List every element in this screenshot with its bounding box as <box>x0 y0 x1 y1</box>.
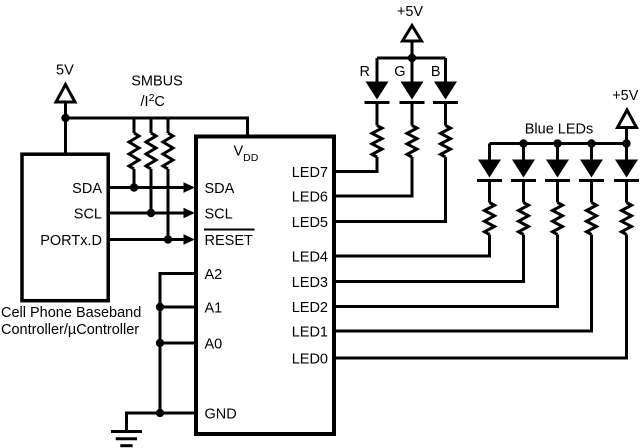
arrow SDA into U1 <box>184 182 196 192</box>
wire blue LED 2 resistor to LED3 pin <box>332 235 524 282</box>
resistor R series <box>372 126 382 158</box>
svg-text:G: G <box>394 64 405 80</box>
svg-text:A2: A2 <box>205 267 223 283</box>
junction bus A1 <box>156 303 164 311</box>
resistor B series <box>441 126 451 158</box>
wire blue LED 3 cathode to resistor <box>556 181 559 203</box>
svg-text:A0: A0 <box>205 337 223 353</box>
svg-text:/I2C: /I2C <box>141 92 165 110</box>
wire LED B resistor to LED5 pin <box>332 157 446 222</box>
LED blue D7 <box>579 160 604 181</box>
svg-text:LED0: LED0 <box>292 352 328 368</box>
resistor G series <box>407 126 417 158</box>
resistor blue LED 5 series <box>622 203 632 235</box>
svg-text:+5V: +5V <box>397 4 424 20</box>
wire LED B cathode to resistor <box>444 103 447 126</box>
svg-text:LED3: LED3 <box>292 275 328 291</box>
overline RESET <box>204 229 255 231</box>
svg-text:LED2: LED2 <box>292 300 328 316</box>
LED blue D6 <box>545 160 570 181</box>
wire LED G resistor to LED6 pin <box>332 157 412 196</box>
LED red D1 <box>365 82 390 103</box>
power symbol +5V RGB <box>403 26 422 42</box>
wire RESET net <box>108 238 186 241</box>
wire blue LED 5 resistor to LED0 pin <box>332 235 627 359</box>
svg-text:LED5: LED5 <box>292 215 328 231</box>
junction blue rail col 3 <box>553 139 561 147</box>
op IC U1 LED driver box <box>196 137 334 435</box>
svg-text:+5V: +5V <box>612 88 639 104</box>
wire pull-up R SCL bottom stub <box>150 169 153 213</box>
wire pull-up R SDA bottom stub <box>133 169 136 188</box>
wire pull-up R SDA top stub <box>133 118 136 133</box>
wire A0 <box>160 342 198 345</box>
resistor blue LED 2 series <box>519 203 529 235</box>
svg-text:Blue LEDs: Blue LEDs <box>525 122 594 138</box>
LED green D2 <box>400 82 425 103</box>
svg-text:SCL: SCL <box>74 206 102 222</box>
resistor blue LED 3 series <box>553 203 563 235</box>
junction bus A0 <box>156 339 164 347</box>
svg-text:RESET: RESET <box>205 233 253 249</box>
junction pull-up on RESET <box>164 235 172 243</box>
wire blue LED 4 cathode to resistor <box>590 181 593 203</box>
svg-text:SMBUS: SMBUS <box>131 74 183 90</box>
wire LED G cathode to resistor <box>411 103 414 126</box>
wire blue LED 4 resistor to LED1 pin <box>332 235 592 332</box>
wire 5V stem to controller box <box>64 102 67 156</box>
wire +5V blue stem <box>625 128 628 144</box>
wire blue LED 3 resistor to LED2 pin <box>332 235 558 307</box>
junction 5V stem / VDD rail <box>61 114 69 122</box>
wire rail drop to blue LED 5 <box>625 144 628 160</box>
wire rail drop to blue LED 4 <box>590 144 593 160</box>
junction pull-up on SCL <box>147 209 155 217</box>
svg-text:SDA: SDA <box>72 181 102 197</box>
junction RGB rail <box>408 54 416 62</box>
wire LED R resistor to LED7 pin <box>332 157 377 172</box>
wire A1 <box>160 306 198 309</box>
svg-text:PORTx.D: PORTx.D <box>40 233 102 249</box>
wire pull-up R RESET top stub <box>167 118 170 133</box>
wire GND net <box>127 413 199 431</box>
junction blue rail col 2 <box>519 139 527 147</box>
svg-text:LED7: LED7 <box>292 165 328 181</box>
wire A2 and address bus <box>160 274 198 414</box>
svg-text:SDA: SDA <box>205 181 235 197</box>
wire blue LED 2 cathode to resistor <box>522 181 525 203</box>
resistor pull-up SDA <box>129 133 139 169</box>
resistor pull-up SCL <box>146 133 156 169</box>
svg-text:B: B <box>431 64 441 80</box>
svg-text:A1: A1 <box>205 301 223 317</box>
LED blue D3 <box>433 82 458 103</box>
wire rail drop to blue LED 1 <box>488 144 491 160</box>
wire LED R cathode to resistor <box>376 103 379 126</box>
junction blue rail col 4 <box>587 139 595 147</box>
resistor pull-up RESET <box>163 133 173 169</box>
wire pull-up R RESET bottom stub <box>167 169 170 240</box>
resistor blue LED 1 series <box>485 203 495 235</box>
svg-text:SCL: SCL <box>205 207 233 223</box>
svg-text:LED4: LED4 <box>292 250 328 266</box>
svg-text:LED6: LED6 <box>292 190 328 206</box>
power symbol +5V blue LEDs <box>618 110 637 128</box>
wire blue LED 5 cathode to resistor <box>625 181 628 203</box>
arrow SCL into U1 <box>184 208 196 218</box>
LED blue D5 <box>511 160 536 181</box>
wire drop to LED B <box>444 58 447 82</box>
svg-text:LED1: LED1 <box>292 325 328 341</box>
power symbol 5V <box>56 85 75 103</box>
wire RGB rail <box>377 57 446 60</box>
arrow RESET into U1 <box>184 234 196 244</box>
wire blue rail <box>490 142 627 145</box>
wire SCL net <box>108 212 186 215</box>
wire +5V RGB stem <box>411 41 414 82</box>
svg-text:GND: GND <box>205 407 237 423</box>
wire pull-up R SCL top stub <box>150 118 153 133</box>
resistor blue LED 4 series <box>587 203 597 235</box>
wire blue LED 1 resistor to LED4 pin <box>332 235 490 257</box>
wire drop to LED R <box>376 58 379 82</box>
junction bus GND <box>156 409 164 417</box>
wire VDD rail from 5V to U1 VDD <box>66 118 248 139</box>
junction pull-up on SDA <box>130 183 138 191</box>
wire SDA net <box>108 186 186 189</box>
svg-text:Cell Phone Baseband: Cell Phone Baseband <box>1 305 141 321</box>
svg-text:Controller/µController: Controller/µController <box>1 322 139 338</box>
wire rail drop to blue LED 2 <box>522 144 525 160</box>
ground symbol <box>111 432 142 446</box>
LED blue D4 <box>477 160 502 181</box>
wire rail drop to blue LED 3 <box>556 144 559 160</box>
junction blue rail col 5 <box>622 139 630 147</box>
controller box Cell Phone Baseband Controller <box>22 154 108 301</box>
svg-text:R: R <box>360 64 370 80</box>
svg-text:5V: 5V <box>56 63 74 79</box>
LED blue D8 <box>614 160 639 181</box>
wire blue LED 1 cathode to resistor <box>488 181 491 203</box>
